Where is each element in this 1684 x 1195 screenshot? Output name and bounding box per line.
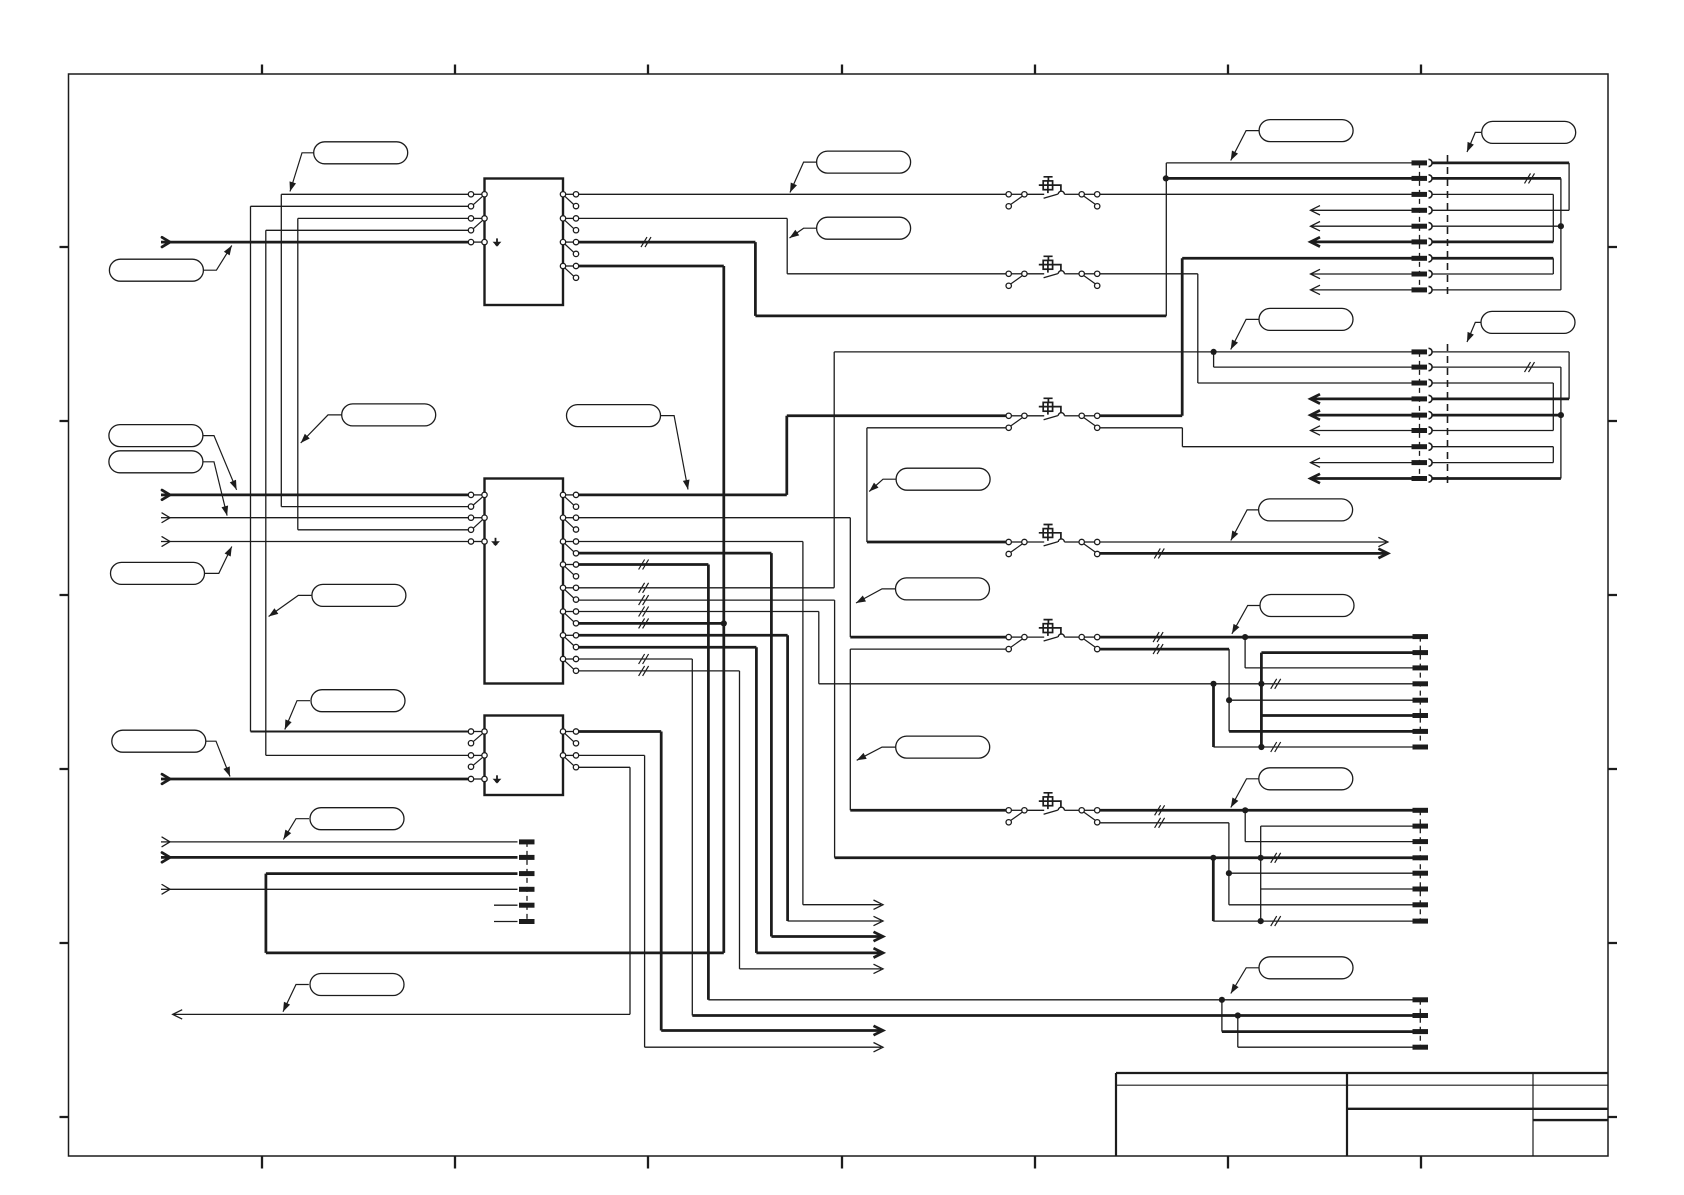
wire J2-G3U to arrow bbox=[579, 542, 883, 910]
wire J2-G5U to bank2 pins 1,2 bbox=[579, 352, 1412, 588]
wire input TL pin4 bbox=[161, 885, 518, 895]
bus slash bank4 pin8 bbox=[1271, 916, 1281, 926]
wire bank2 pin9 arrow bbox=[1311, 474, 1412, 483]
callout label L14 bbox=[1231, 308, 1353, 349]
wire J2-G7U to arrow bbox=[579, 635, 883, 925]
wire input TL pin2 bbox=[161, 853, 518, 863]
callout label L7 bbox=[301, 404, 436, 443]
title block bbox=[1116, 1073, 1608, 1156]
callout label L10 bbox=[109, 451, 228, 516]
junction bank2 pin1 wire bbox=[1211, 349, 1217, 355]
wire J3-G2L to left arrow bbox=[173, 767, 630, 1019]
wire input to J2 ground bbox=[161, 537, 468, 547]
bus slash J2-G6L bbox=[639, 618, 649, 628]
wire S6 upper out to bank4 pins 1,3 bbox=[1100, 810, 1413, 841]
terminator bank P3 bbox=[1413, 634, 1429, 749]
wire bank2 loop pins 2-5-9 bbox=[1432, 367, 1561, 478]
junction bank5 pin1 bbox=[1219, 997, 1225, 1003]
callout label L17 bbox=[1231, 499, 1353, 541]
ground pin J2 bbox=[491, 538, 500, 546]
wire J1 pin4 feeder bbox=[266, 230, 469, 755]
wire J2-G1 to S3 input bbox=[579, 416, 1006, 495]
bus slash S5 upper bbox=[1153, 632, 1163, 642]
bus slash S5 lower bbox=[1153, 644, 1163, 654]
callout label L23 bbox=[283, 808, 404, 840]
breaker switch S3 bbox=[1006, 398, 1100, 430]
callout label L3 bbox=[790, 151, 911, 192]
wire S4 upper out arrow bbox=[1100, 537, 1388, 546]
bus slash bank1 pin2 loop bbox=[1525, 173, 1535, 183]
junction S5 out bbox=[1242, 634, 1248, 640]
wire bank1 pin9 arrow bbox=[1311, 285, 1412, 294]
ground pin J1 bbox=[493, 238, 502, 246]
bus slash J2-G8L bbox=[639, 666, 649, 676]
bus slash S6 upper bbox=[1155, 805, 1165, 815]
wire J2-G6U bus to bank3 pins 2,4,6,8 bbox=[579, 612, 1413, 748]
wire J1-G3 bus to bank1 pins 1,2 bbox=[579, 163, 1412, 316]
bus slash J2-G4U bbox=[639, 560, 649, 570]
bus slash bank4 pin4 bbox=[1271, 853, 1281, 863]
junction on bank1 pin2 wire bbox=[1163, 175, 1169, 181]
breaker switch S1 bbox=[1006, 177, 1100, 209]
junction S6 out bbox=[1242, 807, 1248, 813]
bus slash S6 lower bbox=[1155, 818, 1165, 828]
breaker switch S2 bbox=[1006, 256, 1100, 288]
callout label L1 bbox=[290, 142, 408, 192]
wire bank1 loop pins 2-5-9 bbox=[1432, 178, 1561, 290]
callout label L16 bbox=[856, 578, 990, 603]
wire J3-G1U to arrow bbox=[579, 732, 883, 1036]
wire bank2 loop pins 7-8 bbox=[1432, 447, 1553, 463]
wire stub TL pin6 bbox=[494, 921, 518, 923]
junctions bank3 bus bbox=[1210, 681, 1264, 750]
junction bank1 pin5 loop bbox=[1558, 223, 1564, 229]
wire input to J2 pin3 bbox=[161, 513, 468, 523]
callout label L25 bbox=[1231, 957, 1353, 994]
wire bank1 loop pins 7-8 bbox=[1432, 258, 1553, 274]
wire J2-G4U to bank5 pins 1,3 bbox=[579, 565, 1413, 1032]
connector bank P1 pins bbox=[1412, 155, 1448, 297]
callout label L22 bbox=[112, 730, 230, 776]
wire S5 aux to S6 input bbox=[850, 649, 1006, 810]
junctions bank4 bus bbox=[1210, 855, 1264, 925]
wire bank1 loop pins 3-6 bbox=[1432, 194, 1553, 242]
breaker switch S5 bbox=[1006, 620, 1100, 652]
callout label L8 bbox=[567, 405, 690, 490]
wire bank2 loop pins 3-6 bbox=[1432, 383, 1553, 431]
wire J1-G4 loop to terminator bank TL pin3 bbox=[266, 266, 724, 953]
wire J2-G3L to arrow bbox=[579, 553, 883, 941]
junction bank5 pin2 bbox=[1235, 1012, 1241, 1018]
bus slash bank3 pin4 bbox=[1271, 679, 1281, 689]
wire J1 pin1 feeder bbox=[281, 194, 468, 506]
callout label L18 bbox=[1232, 595, 1354, 634]
wire J2-G6L stub to J1-G4 riser bbox=[579, 622, 724, 625]
wire bank2 pin4 arrow bbox=[1311, 394, 1412, 403]
bus slash J1-G3 bbox=[641, 237, 651, 247]
wire J3-G2U to arrow bbox=[579, 755, 883, 1052]
wire bank1 pin4 arrow bbox=[1311, 206, 1412, 215]
callout label L12 bbox=[269, 584, 406, 616]
wire S4 lower out arrow bbox=[1100, 549, 1388, 558]
connector bank P2 pins bbox=[1412, 344, 1448, 486]
bus slash J2-G5U bbox=[639, 583, 649, 593]
bus slash J2-G6U bbox=[639, 607, 649, 617]
junction J2-G6L on J1-G4 riser bbox=[721, 620, 727, 626]
callout label L4 bbox=[790, 217, 911, 239]
wire J2-G5L bus to bank4 pins 2,4,6,8 bbox=[579, 600, 1413, 921]
bus slash bank2 pin2 loop bbox=[1525, 362, 1535, 372]
callout label L21 bbox=[285, 690, 405, 730]
connector J2 bbox=[468, 479, 578, 684]
breaker switch S4 bbox=[1006, 525, 1100, 557]
callout label L15 bbox=[1467, 311, 1575, 342]
bus slash J2-G5L bbox=[639, 595, 649, 605]
wire bank2 loop pins 1-4 bbox=[1432, 352, 1569, 399]
wire bank2 pin8 arrow bbox=[1311, 458, 1412, 467]
junction bank2 pin5 loop bbox=[1558, 412, 1564, 418]
junction bank4 pin5 branch bbox=[1226, 870, 1232, 876]
wire S5 upper out to bank3 pins 1,3 bbox=[1100, 637, 1413, 668]
callout label L6 bbox=[1467, 121, 1576, 152]
wire J2-G8U to bank5 pins 2,4 bbox=[579, 659, 1413, 1047]
bus slash J2-G8U bbox=[639, 654, 649, 664]
wire bank1 pin5 arrow bbox=[1311, 222, 1412, 231]
bus slash bank3 pin8 bbox=[1271, 742, 1281, 752]
callout label L9 bbox=[109, 425, 237, 490]
wire J1 pin3 feeder bbox=[298, 218, 469, 529]
wire S3 lower out to bank2 pin7 bbox=[1100, 428, 1412, 447]
wire S5 lower out to bank3 pins 5,7 bbox=[1100, 649, 1413, 731]
connector J1 bbox=[468, 179, 578, 306]
terminator bank P5 bbox=[1413, 997, 1429, 1049]
wire J1 pin2 feeder bbox=[251, 206, 469, 731]
callout label L19 bbox=[857, 736, 990, 760]
wire J2-G7L to arrow bbox=[579, 647, 883, 957]
callout label L5 bbox=[1231, 120, 1353, 161]
wire bank2 pin6 arrow bbox=[1311, 426, 1412, 435]
wire bank2 pin5 arrow bbox=[1311, 410, 1412, 419]
wire S3 upper out to bank1 pin7 bbox=[1100, 258, 1412, 416]
connector J3 bbox=[468, 716, 578, 796]
callout label L20 bbox=[1231, 768, 1353, 808]
wire S6 lower out to bank4 pins 5,7 bbox=[1100, 823, 1413, 905]
wire S3 aux to S4 input bbox=[867, 428, 1006, 542]
wire J1-G1 to S1 to bank1 pin3 bbox=[579, 193, 1412, 195]
terminator bank P4 bbox=[1413, 808, 1429, 924]
ground pin J3 bbox=[493, 775, 502, 783]
breaker switch S6 bbox=[1006, 793, 1100, 825]
wire bank1 pin8 arrow bbox=[1311, 269, 1412, 278]
wire input TL pin1 bbox=[161, 837, 518, 847]
callout label L11 bbox=[111, 547, 232, 585]
callout label L2 bbox=[109, 246, 231, 282]
callout label L24 bbox=[283, 974, 404, 1012]
wire J1-G2 to S2 to bank2 pin3 bbox=[579, 218, 1412, 383]
wire bank1 loop pins 1-4 bbox=[1432, 163, 1569, 210]
wire input to J2 pin1 bbox=[161, 490, 468, 500]
wire input to J3 ground bbox=[161, 774, 468, 784]
wire J2-G8L to arrow bbox=[579, 671, 883, 974]
callout label L13 bbox=[869, 468, 990, 491]
terminator bank TL bbox=[519, 839, 535, 924]
wire input to J1 ground bbox=[161, 237, 468, 247]
wire bank1 pin6 arrow bbox=[1311, 237, 1412, 246]
junction bank3 pin5 branch bbox=[1226, 697, 1232, 703]
wire stub TL pin5 bbox=[494, 904, 518, 906]
bus slash S4 lower bbox=[1154, 548, 1164, 558]
wire J2-G2 to S5 input bbox=[579, 518, 1006, 637]
